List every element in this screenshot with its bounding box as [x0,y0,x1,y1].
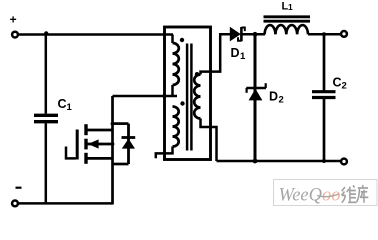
wire mosfet right vertical riser and source drop [111,96,114,203]
svg-text:D: D [231,46,240,60]
transistor Q1 body stub with arrow [87,143,113,146]
node C2 bottom junction [322,159,326,163]
node C1 top junction [44,31,48,35]
winding secondary [194,75,200,119]
watermark box [274,180,378,206]
core line 1 [186,44,189,151]
wire primary bottom lead [156,147,173,159]
transistor Q1 drain stub [87,129,113,132]
terminal output plus [341,31,347,37]
watermark glyph wei [342,185,357,202]
node D2 bottom junction [253,159,258,164]
wire L1 to output [308,33,342,36]
wire primary top lead [171,35,174,44]
capacitor C2 [312,90,336,93]
node D2 top junction [253,32,258,37]
node drain loop junction [111,122,115,126]
svg-text:1: 1 [67,102,73,113]
core line 2 [190,44,193,151]
transistor Q1 channel segment body [84,139,87,150]
diode D2 [254,34,257,161]
terminal input minus [12,201,18,207]
transistor Q1 gate plate [76,130,79,160]
svg-text:1: 1 [240,51,246,62]
inductor L1 winding [265,25,308,34]
transistor Q1 gate stub [66,147,76,159]
winding primary section 1 [173,43,179,85]
inductor L1 core bars [264,15,311,18]
diode body of Q1 [127,124,130,164]
terminal input plus [12,32,18,38]
svg-text:2: 2 [279,94,284,105]
wire D1 cathode to L1 [243,33,266,36]
svg-text:C: C [58,97,67,111]
node primary dot 1 [180,38,184,42]
node primary dot 2 [180,101,184,105]
svg-text:1: 1 [288,2,293,12]
watermark Q tail flourish [317,194,339,197]
winding primary section 2 [173,107,179,147]
node body junction [111,142,115,146]
node C2 top junction [322,32,326,36]
wire drain to primary junction [113,95,178,98]
wire bottom left rail [18,202,114,205]
wire C2 upper lead [323,34,326,90]
transistor Q1 channel segment source [84,153,87,164]
transistor Q1 channel segment drain [84,124,87,135]
transformer box [165,27,211,160]
svg-text:+: + [10,12,17,26]
transistor Q1 source stub [87,157,113,160]
wire body diode loop bottom [113,163,129,166]
wire C1 upper lead [45,35,48,114]
node secondary dot [195,72,199,76]
wire top rail [19,33,173,36]
wire C1 lower lead [45,123,48,203]
wire C2 lower lead [323,99,326,161]
svg-text:D: D [269,90,278,104]
terminal output minus [341,159,347,165]
svg-text:C: C [333,76,342,90]
svg-text:2: 2 [342,80,347,91]
wire secondary bottom exit [201,119,217,162]
diode D1 [230,27,241,42]
watermark glyph ku [357,185,368,203]
capacitor C1 [34,114,58,117]
wire secondary bottom rail [217,160,342,163]
label minus [16,187,22,189]
wire body diode loop top [113,122,129,125]
wire secondary top exit [201,34,231,74]
wire primary mid chord [171,85,174,96]
